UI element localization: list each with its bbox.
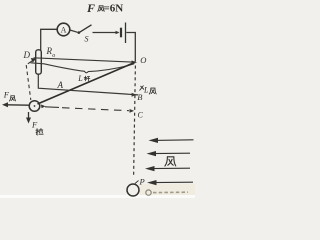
label F_pull xyxy=(31,120,43,135)
label R0 xyxy=(46,46,56,59)
junction tick right of wheel xyxy=(41,105,46,109)
label L_wind at B xyxy=(140,85,157,94)
svg-text:O: O xyxy=(140,55,146,65)
switch S xyxy=(78,25,92,44)
brace for L_rod xyxy=(31,63,135,73)
wind arrow 4 xyxy=(147,180,193,185)
svg-text:A: A xyxy=(57,80,64,90)
wire: switch to battery xyxy=(93,32,119,34)
svg-text:L: L xyxy=(77,74,83,83)
svg-text:C: C xyxy=(138,111,144,120)
faint print smudge bottom xyxy=(146,190,188,195)
label L_rod xyxy=(77,74,90,83)
rod OD (horizontal lever) xyxy=(34,58,136,62)
battery cell xyxy=(121,23,126,44)
svg-text:P: P xyxy=(139,177,145,187)
pulley wheel at A xyxy=(29,101,40,112)
ammeter A xyxy=(57,23,70,36)
dashed horizontal A to C xyxy=(45,107,134,113)
wire: rheostat bottom down then right to B xyxy=(38,75,138,95)
wind arrow 2 xyxy=(147,151,191,156)
wire: battery right, down to O xyxy=(126,33,135,62)
svg-text:S: S xyxy=(85,35,89,44)
rod OA (diagonal) xyxy=(38,62,136,104)
svg-text:L: L xyxy=(143,85,149,94)
paper background xyxy=(0,0,195,198)
force arrow F_pull (down) xyxy=(26,112,31,124)
svg-text:A: A xyxy=(61,26,67,35)
rheostat R0 tube xyxy=(36,50,42,74)
label wind (big) xyxy=(165,157,176,166)
ball P xyxy=(127,181,139,197)
node O junction xyxy=(132,61,138,65)
wire: rheostat top up and across to ammeter xyxy=(41,29,57,50)
force arrow F_wind (left) at wheel xyxy=(2,102,29,107)
svg-text:F: F xyxy=(86,1,95,15)
wind arrow 1 xyxy=(149,138,194,143)
svg-text:F: F xyxy=(31,120,38,130)
wind arrow 3 xyxy=(145,166,190,171)
wiper arrow at D xyxy=(28,58,36,64)
wire: ammeter to switch xyxy=(70,30,78,32)
svg-text:D: D xyxy=(23,50,31,60)
label F_wind xyxy=(3,90,16,102)
label F_wind = 6N (top) xyxy=(86,1,123,15)
dashed line from D down to wheel xyxy=(26,65,31,100)
svg-text:F: F xyxy=(3,90,10,100)
svg-text:B: B xyxy=(137,92,142,102)
dashed vertical line O-B-C down to ball xyxy=(134,66,136,177)
svg-text:=6N: =6N xyxy=(104,3,124,15)
